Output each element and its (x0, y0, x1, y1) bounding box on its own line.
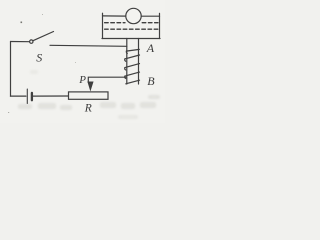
battery short plate (31, 93, 33, 100)
tank left wall (102, 13, 104, 38)
svg-text:A: A (146, 41, 155, 55)
svg-text:P: P (78, 74, 86, 86)
slider arrow P (88, 82, 93, 90)
tank rim left (103, 15, 127, 17)
coil turn 2 (125, 55, 140, 61)
core right bar (138, 39, 140, 85)
float ball (126, 8, 141, 23)
switch S blade (33, 32, 54, 41)
liquid dashes row 2 (105, 28, 158, 30)
tank right wall (159, 13, 161, 38)
coil turn 1 (126, 49, 139, 53)
coil turn 3 (125, 64, 140, 70)
switch S pivot (30, 40, 33, 43)
battery long plate (26, 89, 28, 104)
core left bar (126, 39, 128, 85)
svg-text:R: R (84, 102, 92, 114)
wire switch to coil top (50, 45, 127, 46)
coil turn 5 (126, 80, 140, 84)
wire battery to rheostat (33, 95, 68, 97)
scan speckles (8, 14, 76, 113)
wire bottom-left (11, 95, 26, 97)
wire left vertical (10, 42, 12, 97)
coil turn 4 (125, 72, 140, 78)
rheostat R body (69, 92, 109, 99)
page bleed-through smudges (18, 70, 160, 119)
wire slider to coil bottom (88, 77, 126, 82)
svg-text:S: S (36, 51, 42, 65)
svg-text:B: B (147, 74, 155, 88)
tank bottom (102, 38, 160, 40)
liquid dashes row 1 right (142, 22, 158, 24)
liquid dashes row 1 left (105, 22, 125, 24)
wire top-left to switch (11, 41, 30, 43)
tank rim right (141, 15, 160, 17)
